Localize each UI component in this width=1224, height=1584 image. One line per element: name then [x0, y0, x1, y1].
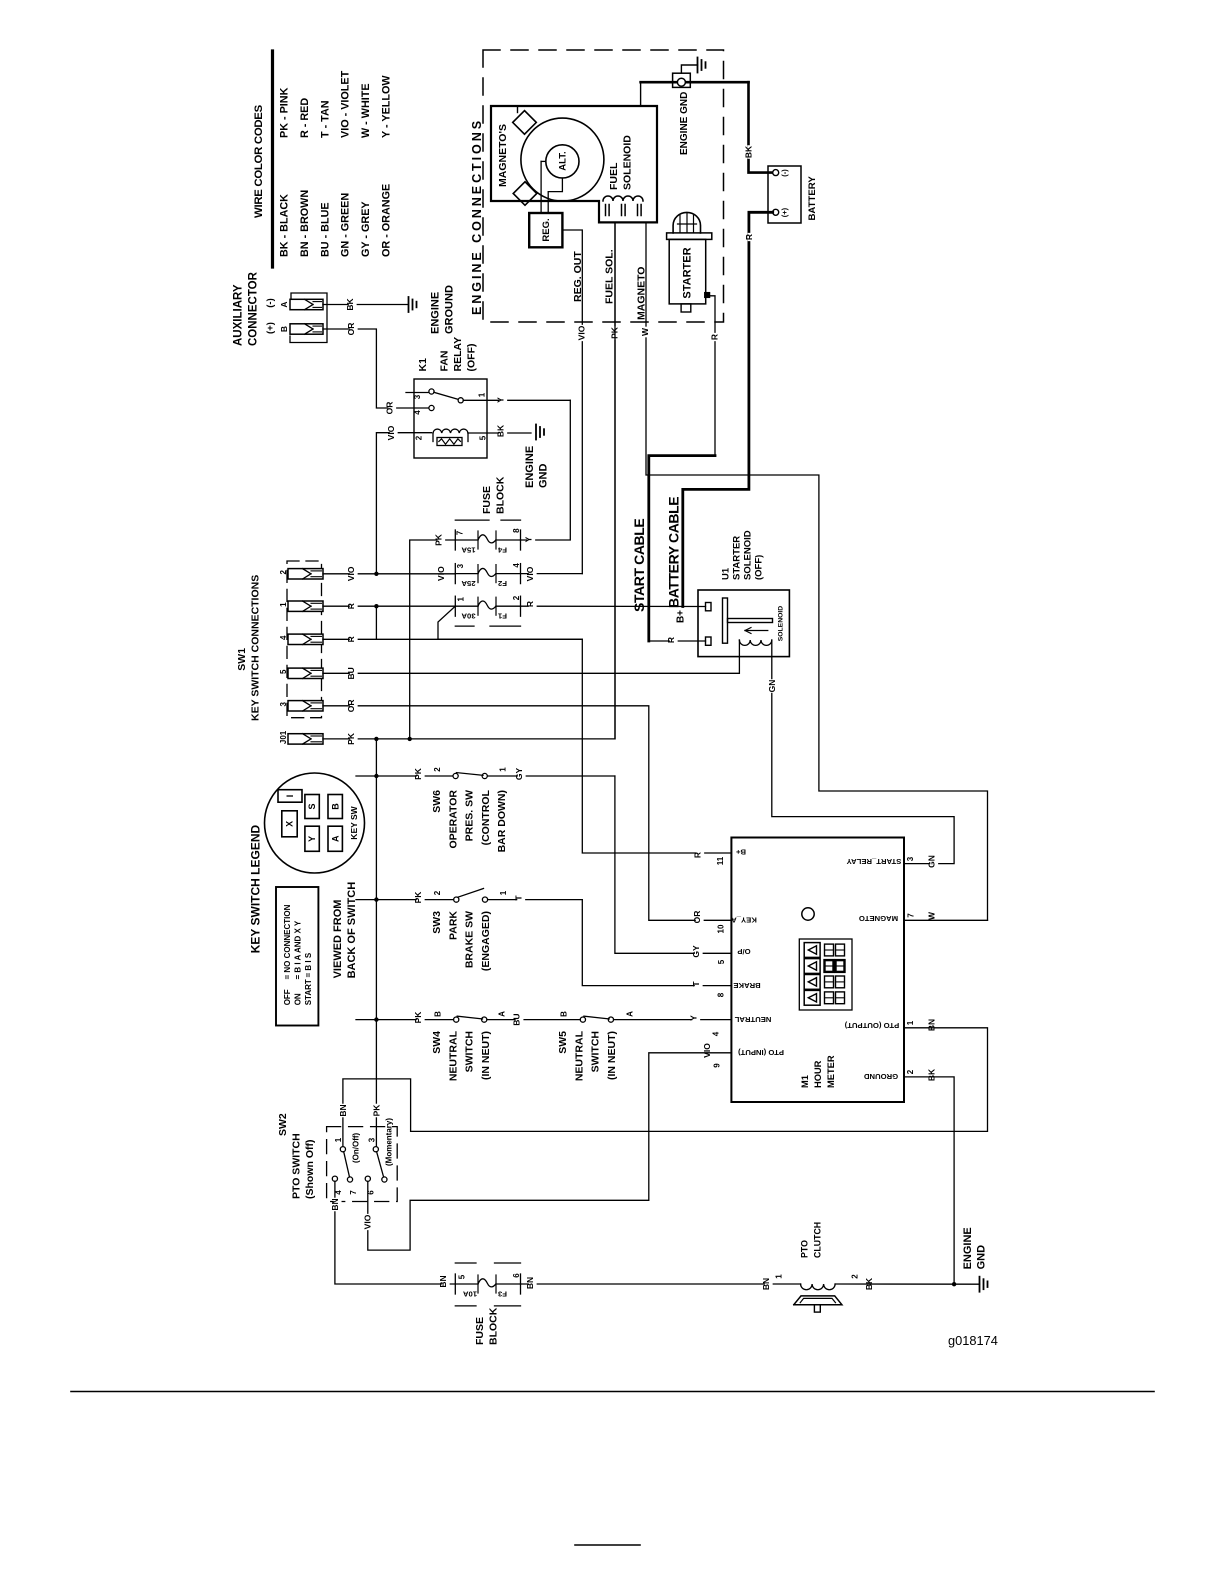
svg-text:KEY_A: KEY_A	[731, 916, 757, 925]
svg-text:PTO: PTO	[800, 1240, 810, 1258]
wire GY SW6 to M1 pin5	[615, 776, 732, 953]
svg-text:4: 4	[334, 1190, 343, 1195]
svg-text:K1: K1	[417, 358, 429, 372]
fuse block F3 outline	[455, 1262, 476, 1264]
off/on/start box	[276, 887, 318, 1026]
svg-text:BAR DOWN): BAR DOWN)	[496, 790, 508, 852]
svg-text:BK - BLACK: BK - BLACK	[279, 194, 291, 257]
svg-text:PK - PINK: PK - PINK	[279, 87, 291, 138]
svg-text:AUXILIARY: AUXILIARY	[233, 284, 245, 346]
svg-text:5: 5	[458, 1274, 467, 1279]
svg-text:B: B	[330, 803, 340, 810]
svg-text:BU: BU	[512, 1013, 522, 1025]
U1 arrow	[745, 630, 768, 632]
svg-text:ENGINE GND: ENGINE GND	[679, 92, 690, 155]
svg-text:9: 9	[713, 1063, 722, 1068]
svg-text:WIRE COLOR CODES: WIRE COLOR CODES	[253, 104, 265, 218]
svg-text:2: 2	[415, 435, 424, 440]
starter body	[669, 239, 706, 304]
K1 pin 3 contact	[429, 389, 434, 394]
svg-text:SWITCH: SWITCH	[464, 1031, 476, 1072]
svg-text:START: START	[304, 979, 313, 1005]
svg-text:F1: F1	[497, 612, 507, 621]
SW2 contact 7	[347, 1177, 352, 1182]
svg-text:3: 3	[279, 702, 288, 707]
svg-text:(OFF): (OFF)	[466, 344, 478, 372]
SW3 blade (open)	[458, 889, 484, 898]
svg-text:ENGINE: ENGINE	[962, 1227, 974, 1269]
svg-text:1: 1	[478, 392, 487, 397]
svg-text:OR: OR	[692, 911, 702, 924]
U1 plunger T bar	[723, 598, 728, 643]
svg-text:SW1: SW1	[236, 648, 248, 671]
svg-text:BK: BK	[495, 424, 505, 437]
alternator circle	[546, 145, 579, 178]
SW3 row	[356, 899, 453, 901]
PTO clutch plate	[794, 1296, 842, 1305]
svg-text:BRAKE SW: BRAKE SW	[464, 911, 476, 968]
battery box	[768, 166, 801, 223]
svg-text:(Momentary): (Momentary)	[385, 1118, 394, 1166]
svg-text:PK: PK	[413, 767, 423, 780]
svg-text:R: R	[525, 601, 535, 607]
svg-text:PTO SWITCH: PTO SWITCH	[291, 1133, 303, 1199]
svg-text:3: 3	[456, 563, 465, 568]
wire VIO REG. OUT to fuse F2 pin4	[562, 230, 582, 574]
svg-text:SW6: SW6	[431, 790, 443, 813]
wire F1 out (R) to solenoid B+	[455, 605, 478, 607]
svg-text:3: 3	[368, 1137, 377, 1142]
svg-text:Y: Y	[307, 836, 317, 842]
svg-text:1: 1	[457, 596, 466, 601]
svg-text:7: 7	[907, 913, 916, 918]
SW5 contact B	[580, 1017, 585, 1022]
SW3 contact 2	[454, 897, 459, 902]
SW2 contact 4	[332, 1176, 337, 1181]
svg-text:VIO: VIO	[525, 566, 535, 581]
svg-text:VIEWED FROM: VIEWED FROM	[332, 900, 344, 979]
svg-text:1: 1	[334, 1137, 343, 1142]
bottom center mark	[575, 1544, 640, 1546]
svg-text:R: R	[744, 234, 754, 240]
engine gnd (bottom right)	[979, 1277, 981, 1292]
U1 terminal start	[706, 637, 712, 645]
svg-text:SW5: SW5	[557, 1031, 569, 1054]
svg-text:BN: BN	[926, 1019, 936, 1031]
magneto coil diamond bottom	[513, 182, 537, 206]
svg-text:(On/Off): (On/Off)	[352, 1132, 361, 1163]
svg-text:(OFF): (OFF)	[754, 555, 765, 580]
wires rotor/alt to REG	[540, 161, 542, 213]
M1 pin 8 BRAKE	[695, 980, 703, 988]
svg-text:(+): (+)	[780, 207, 789, 217]
wire W MAGNETO down	[646, 222, 988, 920]
wire PK to F4 pin7	[410, 540, 456, 739]
svg-text:SW3: SW3	[431, 911, 443, 934]
svg-text:MAGNETO: MAGNETO	[636, 267, 648, 320]
svg-text:1: 1	[775, 1274, 784, 1279]
svg-text:3: 3	[413, 394, 422, 399]
svg-text:T - TAN: T - TAN	[320, 100, 332, 138]
key A box	[328, 826, 342, 851]
svg-text:METER: METER	[826, 1055, 836, 1088]
svg-text:W - WHITE: W - WHITE	[360, 83, 372, 138]
svg-text:Y: Y	[688, 1015, 698, 1021]
svg-text:(-): (-)	[265, 298, 276, 308]
battery cable R thick	[683, 212, 773, 606]
svg-text:I: I	[285, 795, 295, 798]
svg-text:FAN: FAN	[439, 351, 451, 372]
junction dots SW1	[374, 572, 378, 576]
SW6 blade	[457, 773, 484, 776]
svg-text:Y: Y	[523, 536, 533, 542]
svg-text:GROUND: GROUND	[863, 1072, 898, 1081]
svg-text:KEY SW: KEY SW	[349, 805, 359, 839]
SW5 contact A	[608, 1017, 613, 1022]
SW1 terminal 4 (R)	[288, 634, 323, 644]
svg-text:BN: BN	[525, 1277, 535, 1289]
svg-text:1: 1	[499, 890, 508, 895]
svg-text:KEY SWITCH LEGEND: KEY SWITCH LEGEND	[249, 825, 263, 954]
svg-text:M1: M1	[800, 1075, 810, 1088]
fuel solenoid coil	[603, 196, 643, 201]
svg-text:5: 5	[479, 435, 488, 440]
fuse F1 30A	[478, 601, 496, 609]
svg-text:BN: BN	[438, 1275, 448, 1287]
svg-text:MAGNETO'S: MAGNETO'S	[497, 124, 509, 187]
svg-text:ENGINE: ENGINE	[524, 446, 536, 488]
wire BK clutch to engine gnd	[835, 1283, 979, 1285]
svg-text:7: 7	[456, 530, 465, 535]
K1 pin 4 contact	[429, 405, 434, 410]
svg-text:OPERATOR: OPERATOR	[447, 790, 459, 849]
svg-text:OR: OR	[346, 323, 356, 336]
svg-text:Y - YELLOW: Y - YELLOW	[381, 75, 393, 138]
svg-text:PTO (INPUT): PTO (INPUT)	[738, 1048, 784, 1057]
starter terminal	[705, 293, 710, 298]
wire R: B row to M1 pin11	[438, 639, 731, 853]
svg-text:VIO: VIO	[386, 425, 396, 440]
svg-text:F2: F2	[498, 579, 507, 588]
SW2 blade 1-7	[344, 1152, 350, 1177]
svg-text:SW2: SW2	[277, 1113, 289, 1136]
svg-text:GND: GND	[538, 464, 550, 489]
svg-text:BLOCK: BLOCK	[488, 1307, 500, 1345]
wire PK chain vertical	[375, 739, 377, 1149]
SW1 connector housing	[287, 561, 322, 718]
svg-text:VIO: VIO	[576, 325, 586, 340]
svg-text:FUEL: FUEL	[608, 162, 620, 190]
svg-text:5: 5	[279, 669, 288, 674]
svg-text:= B I A AND X Y: = B I A AND X Y	[294, 920, 303, 979]
svg-text:5: 5	[717, 959, 726, 964]
key Y box	[305, 826, 319, 851]
svg-text:4: 4	[413, 410, 422, 415]
svg-text:BK: BK	[926, 1068, 936, 1081]
svg-text:1: 1	[499, 767, 508, 772]
M1 pin7 wire W	[904, 919, 988, 921]
SW5 blade	[584, 1016, 609, 1019]
svg-text:NEUTRAL: NEUTRAL	[734, 1015, 771, 1024]
SW2 contact 1	[340, 1147, 345, 1152]
svg-text:4: 4	[279, 635, 288, 640]
svg-text:BACK OF SWITCH: BACK OF SWITCH	[346, 882, 358, 979]
svg-text:OR - ORANGE: OR - ORANGE	[381, 184, 393, 257]
svg-text:REG. OUT: REG. OUT	[572, 251, 584, 302]
fuse F3 10A	[478, 1279, 496, 1287]
wire R start cable to U1	[649, 640, 706, 642]
svg-text:R: R	[346, 636, 356, 642]
svg-text:8: 8	[512, 528, 521, 533]
svg-text:A: A	[498, 1011, 507, 1017]
K1 resistor	[437, 438, 462, 446]
starter flange	[667, 233, 712, 240]
solenoid U1 box	[698, 590, 789, 657]
svg-text:W: W	[926, 911, 936, 920]
K1 coil	[433, 429, 468, 433]
PTO clutch coil	[801, 1284, 836, 1290]
svg-text:STARTER: STARTER	[682, 247, 694, 298]
wire T SW3 to M1 pin8	[582, 900, 731, 986]
wire PK I row	[323, 222, 615, 739]
svg-text:A: A	[330, 835, 340, 842]
svg-text:(Shown Off): (Shown Off)	[304, 1140, 316, 1199]
svg-text:BK: BK	[743, 145, 753, 158]
SW4 contact B	[454, 1017, 459, 1022]
battery terminal plus	[773, 209, 779, 215]
svg-text:ENGINE: ENGINE	[430, 292, 442, 334]
SW2 blade 3-mom	[377, 1152, 384, 1177]
key S box	[305, 795, 319, 819]
svg-text:GY: GY	[514, 768, 524, 781]
svg-text:2: 2	[433, 767, 442, 772]
K1 common contact	[458, 398, 463, 403]
svg-text:(+): (+)	[265, 322, 276, 334]
svg-text:KEY SWITCH CONNECTIONS: KEY SWITCH CONNECTIONS	[250, 575, 262, 721]
svg-text:= B I S: = B I S	[304, 952, 313, 977]
fuse block outline	[455, 519, 489, 521]
svg-text:BATTERY: BATTERY	[807, 176, 818, 221]
svg-text:1: 1	[906, 1020, 915, 1025]
svg-text:VIO: VIO	[702, 1043, 712, 1058]
svg-text:6: 6	[512, 1273, 521, 1278]
K1 pin 3 stub	[406, 392, 429, 394]
svg-text:FUSE: FUSE	[481, 486, 493, 514]
magneto box	[491, 106, 657, 222]
wire R jog F1 pin1 to B row	[438, 606, 455, 639]
SW1 terminal 2 (VIO)	[288, 569, 323, 579]
svg-text:BU: BU	[346, 667, 356, 679]
svg-text:F3: F3	[498, 1290, 507, 1299]
svg-text:(IN NEUT): (IN NEUT)	[480, 1031, 492, 1080]
wire BK to battery minus	[749, 82, 773, 172]
svg-text:T: T	[513, 895, 523, 901]
svg-text:= NO CONNECTION: = NO CONNECTION	[283, 904, 292, 979]
svg-text:2: 2	[279, 570, 288, 575]
relay K1 box	[414, 379, 487, 458]
wire aux A to ground (BK)	[323, 304, 408, 306]
svg-text:START_RELAY: START_RELAY	[847, 857, 902, 866]
svg-text:GY: GY	[691, 945, 701, 958]
SW1 terminal 3 (OR)	[288, 701, 323, 711]
svg-text:BN: BN	[761, 1278, 771, 1290]
svg-text:BATTERY CABLE: BATTERY CABLE	[666, 497, 682, 608]
svg-text:B+: B+	[735, 848, 746, 857]
svg-text:F4: F4	[497, 546, 507, 555]
svg-text:25A: 25A	[461, 579, 476, 588]
svg-text:g018174: g018174	[948, 1333, 998, 1348]
svg-text:4: 4	[712, 1031, 721, 1036]
svg-text:(-): (-)	[780, 169, 789, 177]
footer rule	[71, 1391, 1154, 1393]
engine ground (aux)	[408, 297, 410, 312]
SW4 contact A	[482, 1017, 487, 1022]
SW6 contact 1	[482, 773, 487, 778]
svg-text:O/P: O/P	[737, 947, 750, 956]
wire R: X-B rows tie	[375, 606, 377, 639]
K1 pin 5 wire to ground (BK)	[468, 432, 531, 434]
svg-text:GY - GREY: GY - GREY	[360, 201, 372, 257]
svg-text:BRAKE: BRAKE	[733, 981, 760, 990]
wire VIO: K1 pin2 to SW1 Y row	[376, 433, 431, 574]
wire F2 row (VIO)	[455, 573, 478, 575]
engine gnd symbol (top)	[681, 65, 697, 73]
key B box	[328, 795, 342, 819]
wire BN M1 pin1 to SW2 pin1	[343, 1028, 988, 1149]
key switch circle	[265, 773, 365, 873]
svg-text:GN: GN	[926, 855, 936, 868]
svg-text:SOLENOID: SOLENOID	[743, 530, 754, 580]
wire color codes legend	[271, 51, 274, 267]
svg-text:NEUTRAL: NEUTRAL	[573, 1030, 585, 1081]
svg-text:(CONTROL: (CONTROL	[480, 789, 492, 845]
svg-text:1: 1	[279, 602, 288, 607]
svg-text:BLOCK: BLOCK	[495, 476, 507, 514]
svg-text:A: A	[279, 301, 289, 307]
svg-text:VIO - VIOLET: VIO - VIOLET	[340, 70, 352, 138]
svg-text:ON: ON	[294, 993, 303, 1005]
svg-text:S: S	[307, 803, 317, 809]
svg-text:BN: BN	[338, 1104, 348, 1116]
svg-text:BN - BROWN: BN - BROWN	[299, 190, 311, 257]
U1 coil	[739, 640, 771, 645]
svg-text:SW4: SW4	[431, 1031, 443, 1054]
svg-text:B: B	[279, 326, 289, 332]
svg-text:SWITCH: SWITCH	[590, 1031, 602, 1072]
svg-text:2: 2	[851, 1274, 860, 1279]
fuse F4 15A	[478, 535, 496, 543]
aux terminal B	[290, 324, 323, 334]
svg-text:NEUTRAL: NEUTRAL	[447, 1030, 459, 1081]
K1 pin 1 wire (Y)	[463, 399, 570, 401]
svg-text:BN: BN	[330, 1198, 340, 1210]
key X box	[282, 811, 297, 837]
starter bottom tab	[681, 304, 691, 312]
svg-text:PK: PK	[371, 1104, 381, 1117]
svg-text:SOLENOID: SOLENOID	[622, 135, 634, 190]
SW2 contact 6	[365, 1176, 370, 1181]
magneto rotor circle	[521, 118, 604, 201]
svg-text:J01: J01	[279, 730, 288, 744]
svg-text:R: R	[346, 603, 356, 609]
svg-text:MAGNETO: MAGNETO	[859, 914, 898, 923]
wire PK FUEL SOL down	[614, 222, 616, 739]
M1 pin 9 PTO(INPUT)	[706, 1042, 714, 1058]
svg-text:B+: B+	[675, 610, 686, 623]
M1 LED circle	[802, 908, 814, 920]
SW6 row	[356, 775, 453, 777]
svg-text:11: 11	[716, 856, 725, 865]
svg-text:2: 2	[512, 595, 521, 600]
wire BN F3 to PTO clutch	[455, 1283, 478, 1285]
svg-text:STARTER: STARTER	[732, 536, 743, 580]
svg-text:START CABLE: START CABLE	[631, 519, 647, 612]
svg-text:PTO (OUTPUT): PTO (OUTPUT)	[844, 1021, 899, 1030]
start cable thick	[649, 456, 715, 641]
wire BN SW2 pin4 to F3	[335, 1181, 455, 1284]
svg-text:FUEL SOL.: FUEL SOL.	[604, 249, 616, 304]
svg-text:FUSE: FUSE	[474, 1317, 486, 1345]
M1 pin 10 KEY_A	[696, 910, 704, 924]
magneto coil diamond top	[513, 111, 537, 135]
svg-text:GND: GND	[976, 1245, 988, 1270]
SW4 blade	[457, 1016, 482, 1019]
svg-text:10A: 10A	[463, 1290, 478, 1299]
svg-text:(ENGAGED): (ENGAGED)	[480, 911, 492, 971]
K1 switch blade	[434, 392, 459, 399]
M1 pin 5 O/P	[695, 945, 703, 959]
SW2 momentary contact	[382, 1177, 387, 1182]
svg-text:VIO: VIO	[363, 1214, 373, 1229]
svg-text:SOLENOID: SOLENOID	[778, 606, 785, 642]
svg-text:W: W	[640, 327, 650, 336]
key I box	[278, 790, 302, 803]
svg-text:RELAY: RELAY	[452, 337, 464, 372]
svg-text:OR: OR	[346, 699, 356, 712]
svg-text:6: 6	[367, 1190, 376, 1195]
svg-text:OR: OR	[384, 402, 394, 415]
engine connections dashed box	[483, 50, 724, 322]
svg-text:PK: PK	[413, 1011, 423, 1024]
svg-text:PRES. SW: PRES. SW	[464, 790, 476, 841]
starter dome	[673, 212, 700, 233]
svg-text:REG.: REG.	[541, 218, 552, 241]
wire VIO M1 pin9 to SW2 pin6	[368, 1053, 732, 1250]
SW3 contact 1	[482, 897, 487, 902]
SW6 contact 2	[453, 773, 458, 778]
svg-text:ENGINE CONNECTIONS: ENGINE CONNECTIONS	[470, 118, 484, 315]
svg-text:A: A	[626, 1011, 635, 1017]
svg-text:OFF: OFF	[283, 989, 292, 1005]
svg-text:8: 8	[717, 992, 726, 997]
PTO switch SW2 box	[327, 1127, 398, 1202]
M1 display block	[799, 939, 852, 1010]
svg-text:10: 10	[717, 924, 726, 933]
svg-text:ALT.: ALT.	[558, 151, 569, 170]
U1 terminal B+	[706, 603, 712, 611]
svg-text:BK: BK	[345, 298, 355, 311]
aux terminal A	[290, 299, 323, 309]
svg-text:PK: PK	[413, 891, 423, 904]
svg-text:PARK: PARK	[447, 911, 459, 940]
wire F4 pin8 (Y)	[496, 539, 521, 541]
M1 pin 11 B+	[696, 851, 704, 859]
SW1 row wires	[323, 573, 455, 575]
svg-text:R: R	[709, 334, 719, 340]
svg-text:X: X	[285, 821, 295, 827]
wire Y: K1 pin1 down to fuse F4 pin8	[521, 400, 571, 540]
svg-text:2: 2	[906, 1069, 915, 1074]
